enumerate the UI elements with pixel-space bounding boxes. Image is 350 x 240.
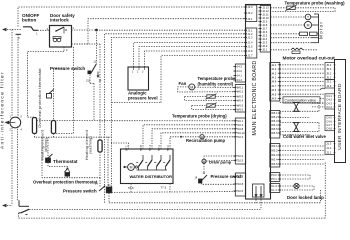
svg-text:CL.2: CL.2 [271,184,277,188]
heating element R2 [51,121,55,134]
thermostat TH3 [67,167,69,169]
wire lamp loop [299,185,314,187]
svg-text:W5.3: W5.3 [271,119,278,123]
svg-text:J2.3: J2.3 [262,41,268,45]
svg-text:Overheat protection thermostat: Overheat protection thermostat [37,67,42,127]
wire pressure switch 1 down [89,75,91,84]
svg-text:W5.5: W5.5 [271,127,278,131]
wire SW3 to T10 row [202,183,236,184]
wire switch to interlock [38,29,50,31]
svg-text:M: M [203,160,206,164]
svg-text:T: T [307,16,309,20]
svg-text:interlock: interlock [50,17,69,22]
wire P3 rows [280,174,310,176]
left rail 1 lower [11,128,13,206]
thermostat TH2 [46,158,51,163]
wire switch output tick [16,33,22,35]
svg-text:T10.10: T10.10 [236,131,245,135]
wire top bus to J3.3 [18,7,246,27]
water distributor cam switches [142,155,144,160]
wire cond row [280,97,283,99]
temperature probe RT1 [207,95,215,98]
bottom mains switch [18,200,20,206]
svg-text:J3.3: J3.3 [326,84,332,88]
wire long bus y102 [112,102,162,104]
connector J1 [246,28,257,58]
svg-text:J2.11: J2.11 [262,13,269,17]
wire interlock pin2 to left rail [27,52,64,118]
wire distributor pin3 to T10.8 [152,129,235,149]
svg-text:Cold water inlet valve: Cold water inlet valve [283,134,326,139]
svg-text:W3.1: W3.1 [271,144,278,148]
wire plug L drop [255,197,257,203]
svg-text:Recirculation pump: Recirculation pump [186,138,226,143]
bottom bus A [109,202,321,204]
svg-text:T10.2: T10.2 [236,154,243,158]
svg-text:T10.6: T10.6 [236,189,243,193]
main electronic board U1 [246,5,271,200]
svg-text:C4.6: C4.6 [326,119,332,123]
wire interlock aux corner [72,43,89,45]
svg-text:W3.4: W3.4 [271,158,278,162]
svg-text:Fan: Fan [179,81,187,86]
svg-text:T10.4: T10.4 [236,123,243,127]
motor brushes [271,33,300,35]
wire T10.3 row to SW2 [107,137,109,187]
door safety interlock box [50,26,72,48]
wire R3 top corner [74,43,100,45]
svg-text:T10.3: T10.3 [236,135,243,139]
svg-text:J5.3: J5.3 [326,67,332,71]
user interface board U2 [335,60,346,163]
svg-text:Motor: Motor [319,21,325,39]
svg-text:W5.2: W5.2 [271,115,278,119]
wire W3 rows to user board [280,145,325,147]
svg-text:C4.1: C4.1 [326,94,332,98]
svg-text:C4.5: C4.5 [326,116,332,120]
svg-text:J1.6: J1.6 [247,49,253,53]
wire thermostat TH1 riser [53,68,55,120]
wire riser to J1.3 [112,37,246,143]
svg-text:J5.4: J5.4 [326,63,332,67]
svg-text:Temperature probe (washing): Temperature probe (washing) [285,0,346,5]
svg-text:J1.4: J1.4 [247,41,253,45]
svg-text:W3.2: W3.2 [271,149,278,153]
wire user board riser [324,163,326,219]
svg-text:J4.1: J4.1 [237,74,243,78]
wire valve1 rows [280,102,293,104]
wire fan loop [195,86,236,88]
temperature probe RT3 [287,6,295,9]
svg-text:J3.3: J3.3 [247,5,253,9]
bottom bus B [29,208,261,210]
wire TH1 corner top [54,67,65,69]
svg-text:W3.3: W3.3 [271,153,278,157]
door locked lamp HL1 [294,183,299,188]
svg-text:57.3: 57.3 [157,145,161,151]
svg-text:W6.4: W6.4 [237,99,244,103]
wire probe RT3 loop [271,7,287,9]
water distributor motor [128,164,135,171]
wire probe RT2 loop [192,105,207,107]
wire bus2 to J3.1 [88,19,246,44]
svg-text:J1.3: J1.3 [326,142,332,146]
svg-text:Pressure switch: Pressure switch [211,174,244,179]
svg-text:J4.3: J4.3 [237,65,243,69]
svg-text:Pressure switch: Pressure switch [63,188,97,193]
motor M1 [304,21,311,28]
svg-text:Temperature probe: Temperature probe [198,76,237,81]
svg-text:W6.2: W6.2 [237,90,244,94]
wire lamp row [280,185,294,187]
wire W5 row6 [280,134,310,136]
wire motor row4 [271,37,312,39]
connector CL [270,184,280,193]
tachometer G1 [305,14,311,20]
svg-text:P3.2: P3.2 [271,173,277,177]
svg-text:J2.6: J2.6 [262,30,268,34]
connector J3 [246,5,257,22]
connector J4 right [270,63,280,102]
svg-text:Drain pump: Drain pump [209,160,232,165]
svg-text:J4.4: J4.4 [271,63,277,67]
wire riser node A down to pressure switch 1 [96,30,98,64]
connector W6 [235,85,245,113]
heating element R1 [32,118,36,134]
wire junction to J1.1 [97,29,246,31]
svg-text:T10.8: T10.8 [236,127,243,131]
wire interlock pin1 to junction [72,29,97,31]
wire motor tacho row [271,16,306,18]
wire motor internal [318,14,320,43]
junction node A [95,29,98,32]
connector T10 upper [235,118,245,164]
wire distributor pin4 to T10.10 [161,133,235,149]
connector W5 [270,111,280,139]
svg-text:J5.2: J5.2 [326,71,332,75]
wire lamp bus riser [320,190,322,203]
wire drain to switch3 [203,164,205,175]
filter input arrow [5,121,10,125]
bottom bus C [19,217,326,219]
svg-text:J4.2: J4.2 [237,69,243,73]
svg-text:57.8: 57.8 [139,145,143,151]
connector bottom plug [253,184,265,197]
svg-text:J3.1: J3.1 [247,17,253,21]
svg-text:C4.8: C4.8 [326,127,332,131]
svg-text:J3.1: J3.1 [326,80,332,84]
svg-text:M: M [190,85,193,89]
svg-text:J5.1: J5.1 [326,76,332,80]
svg-text:C4.7: C4.7 [326,123,332,127]
svg-text:J2.1: J2.1 [262,48,268,52]
mains input arrow L [2,28,7,32]
svg-text:J1.2: J1.2 [326,146,332,150]
wire TH2 chain [53,134,55,138]
wire distributor pin5 riser [169,137,171,149]
svg-text:J2.10: J2.10 [262,16,269,20]
temperature probe RT2 [207,104,215,107]
wire motor row5 [271,42,312,44]
svg-text:(humidity control): (humidity control) [198,82,234,87]
wire user G3 stubs [312,102,325,104]
wire drain pump top [204,156,235,159]
connector P3 [270,173,280,182]
left rail 2 [17,34,19,118]
svg-text:J4.1: J4.1 [271,76,277,80]
wire analogic pin1 to J1.4 [134,43,246,67]
svg-text:W6.6: W6.6 [237,108,244,112]
pressure switch SW3 [199,179,202,183]
svg-text:J1.2: J1.2 [247,32,253,36]
switch ON/OFF [23,27,38,31]
fan motor M2 [189,84,195,90]
svg-text:J4.2: J4.2 [271,71,277,75]
svg-text:(washing): (washing) [89,136,93,154]
svg-text:T10.1: T10.1 [236,119,243,123]
svg-text:pressure level: pressure level [128,95,158,100]
svg-text:J2.5: J2.5 [262,34,268,38]
svg-text:J1.1: J1.1 [326,151,332,155]
anti-interference filter FL1 [10,117,21,128]
pressure switch SW2 [99,186,105,191]
svg-text:J1.5: J1.5 [247,45,253,49]
cold water inlet valve Y2 [294,123,299,132]
heating element R3 [98,140,102,152]
wire R2 bottom link [54,133,74,135]
left rail 1 [11,30,13,118]
svg-text:J2.9: J2.9 [262,20,268,24]
wire distributor bottom pins [130,184,132,193]
drain pump M4 [202,159,206,163]
wire drain pump row2 [206,159,235,162]
svg-text:Door locked lamp: Door locked lamp [287,195,324,200]
wire R1 bottom chain [35,134,112,138]
svg-text:57.2: 57.2 [166,145,170,151]
svg-text:Condensation valve: Condensation valve [285,99,317,103]
svg-text:J4.3: J4.3 [271,67,277,71]
connector W3 [270,144,280,168]
wire riser to J1.2 [105,34,246,203]
wire riser x161 to J1.7 [161,56,246,103]
wire distributor pin2 to T10.4 [143,125,235,149]
svg-text:W6.3: W6.3 [237,95,244,99]
wire plug N drop [260,197,262,209]
connector J2 [260,6,270,53]
svg-text:Pressure switch: Pressure switch [50,66,85,71]
svg-text:P3.1: P3.1 [271,177,277,181]
wire J4r rows to user board [280,64,325,66]
svg-text:Temperature probe (drying): Temperature probe (drying) [172,114,227,119]
svg-text:J1.1: J1.1 [247,28,253,32]
svg-text:W5.6: W5.6 [271,131,278,135]
wire motor row [271,24,305,26]
svg-text:Overheat protection thermostat: Overheat protection thermostat [33,179,98,184]
svg-text:T10.8: T10.8 [236,182,243,186]
svg-text:W6.5: W6.5 [237,104,244,108]
svg-text:J4.5: J4.5 [271,92,277,96]
svg-text:J2.13: J2.13 [262,6,269,10]
wire SW2 to bottom bus [108,193,110,203]
motor overload cut-out F1 [271,49,291,51]
svg-text:MAIN ELECTRONIC BOARD: MAIN ELECTRONIC BOARD [252,60,258,135]
wire distributor pin1 riser [112,143,129,149]
wire valve2 rows [280,122,293,124]
wire probe RT1 loop [185,96,207,98]
svg-text:CL.1: CL.1 [271,188,277,192]
wire analogic pin2 to J1.5 [139,47,246,67]
wire R1 row to T10.1 [37,120,236,122]
analogic pressure level box [128,67,149,90]
wire interlock pin2 down [63,47,65,52]
svg-text:J2.8: J2.8 [262,23,268,27]
svg-text:USER INTERFACE BOARD: USER INTERFACE BOARD [337,83,343,150]
svg-text:C4.4: C4.4 [326,105,332,109]
svg-text:77.3: 77.3 [161,186,167,190]
water distributor box [121,149,174,184]
svg-text:W6.1: W6.1 [237,86,244,90]
svg-text:J4.6: J4.6 [271,88,277,92]
svg-text:M: M [130,166,133,170]
svg-text:Motor overload cut-out: Motor overload cut-out [283,56,336,62]
wire W5 row3 [280,117,310,119]
svg-text:M: M [307,24,310,28]
wire recirc pump row [170,136,200,138]
svg-text:J2.2: J2.2 [262,44,268,48]
condensation valve Y1 [294,103,299,112]
svg-text:J4.7: J4.7 [271,84,277,88]
svg-text:W5.4: W5.4 [271,123,278,127]
svg-text:W3.5: W3.5 [271,162,278,166]
recirculation pump M3 [200,135,204,139]
svg-text:J4.4: J4.4 [237,78,243,82]
wire analogic pin3 to J1.6 [145,51,246,67]
user interface board connectors [325,63,335,80]
thermostat TH1 [47,94,52,99]
svg-text:J4.8: J4.8 [271,80,277,84]
svg-text:C4.2: C4.2 [326,98,332,102]
svg-text:57.4: 57.4 [148,145,152,151]
svg-text:Anti-interference filter: Anti-interference filter [0,71,5,149]
svg-text:J2.12: J2.12 [262,9,269,13]
svg-text:Thermostat: Thermostat [53,159,78,164]
svg-text:WATER DISTRIBUTOR: WATER DISTRIBUTOR [130,174,173,179]
connector J4 left [235,64,245,82]
svg-text:J1.7: J1.7 [247,54,253,58]
left rail 2 lower [17,126,19,200]
svg-text:J2.4: J2.4 [262,37,268,41]
svg-text:W5.1: W5.1 [271,111,278,115]
condensation valve label box [283,97,320,103]
connector T10 lower [235,173,245,196]
svg-text:J4.9: J4.9 [271,97,277,101]
pressure switch 1 [88,71,92,75]
svg-text:J3.2: J3.2 [247,11,253,15]
svg-text:J1.3: J1.3 [247,36,253,40]
mains bottom arrow [2,204,7,208]
svg-text:button: button [22,18,36,23]
svg-text:57.1: 57.1 [124,145,128,151]
svg-text:J2.7: J2.7 [262,27,268,31]
svg-text:C4.3: C4.3 [326,101,332,105]
svg-text:T10.5: T10.5 [236,158,243,162]
wire TH3 bottom [66,176,68,178]
